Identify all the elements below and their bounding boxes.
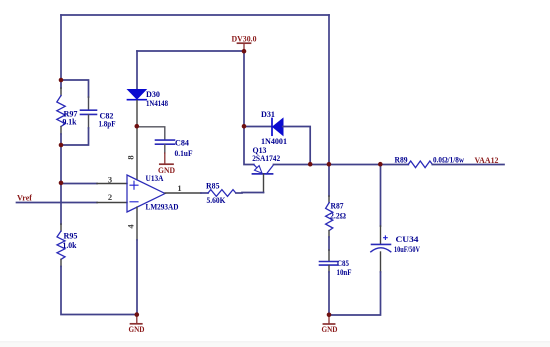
svg-text:Vref: Vref [17, 194, 32, 203]
svg-text:R95: R95 [64, 232, 78, 241]
wire pin4 to gnd [136, 240, 138, 315]
wire C85 to gnd [328, 272, 330, 315]
pin numbers [108, 155, 182, 228]
pin 2 [97, 202, 127, 204]
pin C82 top [88, 97, 90, 110]
pin R97 bottom [60, 127, 62, 135]
transistor Q13 [253, 165, 274, 193]
wire D31 cathode side [283, 127, 310, 165]
svg-text:10nF: 10nF [337, 268, 352, 277]
ground left [131, 315, 142, 324]
node D30 cathode [135, 124, 140, 129]
pin R95 bottom [60, 259, 62, 266]
svg-text:R89: R89 [395, 156, 408, 165]
node pin3 [59, 181, 64, 186]
pin R87 bottom [328, 231, 330, 238]
resistor R89 [408, 161, 432, 168]
wire emitter drop [244, 126, 254, 165]
op-amp U13A [127, 175, 165, 212]
wire collector node [274, 164, 409, 166]
svg-text:R85: R85 [206, 182, 220, 191]
pin R87 top [328, 196, 330, 203]
svg-text:D31: D31 [261, 110, 275, 119]
svg-text:GND: GND [322, 325, 338, 334]
wire DV30 vertical [243, 51, 245, 126]
wire R87 top [328, 164, 330, 196]
svg-text:0.0Ω/1/8w: 0.0Ω/1/8w [433, 156, 464, 165]
wire R87 to C85 [328, 237, 330, 250]
node D31 cathode drop [308, 162, 313, 167]
svg-text:9.1k: 9.1k [63, 118, 78, 127]
wire pin3 net [61, 183, 97, 185]
pin R95 top [60, 224, 62, 231]
svg-text:R87: R87 [331, 202, 344, 211]
wire Vref net [17, 202, 98, 204]
wire C84 branch [137, 127, 165, 139]
resistor R87 [326, 203, 333, 231]
svg-text:U13A: U13A [146, 174, 164, 183]
wire right rail [328, 15, 330, 164]
wire left rail mid [60, 134, 62, 224]
wire pin1 to R85 [201, 192, 208, 194]
capacitor C84 [156, 140, 175, 144]
svg-text:1.0k: 1.0k [63, 241, 78, 250]
svg-text:1.8pF: 1.8pF [99, 120, 116, 129]
svg-text:VAA12: VAA12 [475, 156, 499, 165]
node CU34 [378, 162, 383, 167]
svg-text:1N4148: 1N4148 [146, 99, 168, 108]
svg-text:GND: GND [129, 325, 145, 334]
svg-text:DV30.0: DV30.0 [232, 35, 257, 44]
diode D30 [128, 90, 147, 100]
pin 4 [136, 207, 138, 240]
wire R89 to VAA12 [432, 164, 504, 166]
wire D31 anode side [244, 126, 272, 128]
wire CU34 top [380, 164, 382, 226]
capacitor C82 [81, 110, 97, 114]
pin C84 bottom [164, 145, 166, 153]
pin D30 cathode [136, 101, 138, 127]
svg-text:10uF/50V: 10uF/50V [394, 245, 420, 254]
node C82 top [59, 78, 64, 83]
svg-text:C85: C85 [337, 259, 349, 268]
wire top rail [61, 14, 329, 16]
svg-text:8: 8 [125, 155, 135, 159]
resistor R85 [208, 190, 236, 197]
svg-text:D30: D30 [146, 90, 160, 99]
wire C82 branch top [61, 80, 89, 97]
svg-text:C84: C84 [175, 139, 189, 148]
wire D30 anode [136, 51, 138, 90]
node DV30 [242, 49, 247, 54]
labels blue [63, 90, 465, 277]
wire DV30 horizontal [137, 50, 244, 52]
pin 1 [165, 192, 201, 194]
svg-text:CU34: CU34 [396, 235, 419, 244]
power DV30.0 [238, 43, 251, 51]
resistor R97 [57, 96, 65, 127]
svg-text:2SA1742: 2SA1742 [252, 154, 280, 163]
capacitor CU34 [372, 243, 391, 245]
pin CU34 top [380, 226, 382, 244]
resistor R95 [57, 231, 65, 259]
node right rail [327, 162, 332, 167]
svg-text:2: 2 [108, 192, 112, 202]
svg-text:1N4001: 1N4001 [261, 137, 287, 146]
svg-text:LM293AD: LM293AD [146, 203, 179, 212]
svg-text:0.1uF: 0.1uF [175, 149, 193, 158]
node gnd right [327, 313, 332, 318]
diode D31 [272, 118, 283, 135]
node gnd left [135, 312, 140, 317]
pin C85 top [328, 250, 330, 261]
wire R85 to base [236, 192, 242, 194]
capacitor C85 [320, 262, 338, 266]
ground C84 [160, 153, 173, 164]
wire left rail upper [60, 15, 62, 88]
svg-text:5.60K: 5.60K [207, 196, 227, 205]
pin 3 [97, 183, 127, 185]
wire base lead [242, 192, 264, 194]
node C82 bottom [59, 143, 64, 148]
ground right [323, 315, 334, 324]
wire left rail lower [61, 267, 137, 315]
pin CU34 bottom [380, 252, 382, 272]
node D31 anode [242, 124, 247, 129]
net labels red [17, 156, 499, 203]
wire CU34 to gnd [329, 272, 381, 315]
svg-text:4: 4 [125, 224, 135, 229]
pin 8 [136, 126, 138, 180]
pin C82 bottom [88, 115, 90, 128]
pin C85 bottom [328, 266, 330, 272]
svg-text:2.2Ω: 2.2Ω [330, 212, 347, 221]
svg-text:1: 1 [177, 183, 181, 193]
svg-text:3: 3 [108, 175, 112, 185]
wire C82 branch bottom [61, 128, 89, 145]
pin R97 top [60, 88, 62, 96]
